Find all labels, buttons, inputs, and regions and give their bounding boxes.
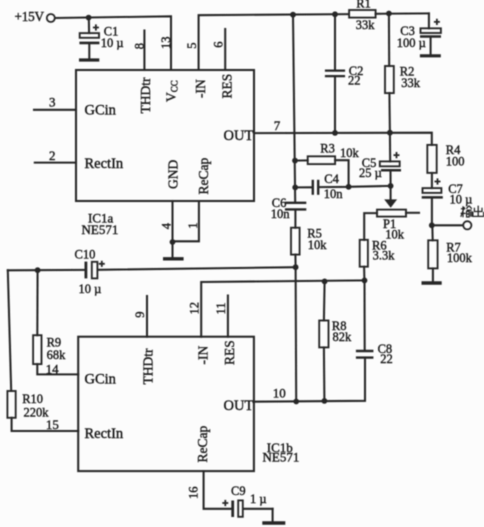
svg-text:-IN: -IN: [196, 346, 211, 365]
terminal output: [463, 221, 471, 229]
wire ReCap pin 1 stub: [173, 201, 199, 241]
capacitor C5: [359, 133, 401, 186]
node C2 top junction: [332, 11, 338, 17]
node R5 bottom junction: [293, 264, 299, 270]
op-amp U2 box IC1b: [78, 337, 254, 471]
ground: [420, 54, 441, 57]
svg-text:C9: C9: [231, 484, 246, 498]
wire RES pin 6 stub: [224, 29, 226, 70]
node R9 top junction: [35, 267, 41, 273]
svg-text:R10: R10: [22, 392, 43, 406]
svg-text:13: 13: [159, 37, 173, 50]
capacitor C10: [8, 248, 296, 296]
wire left branch to R10: [8, 270, 11, 391]
svg-text:82k: 82k: [333, 330, 353, 344]
resistor R6: [360, 238, 396, 280]
svg-text:68k: 68k: [47, 348, 67, 362]
capacitor C4: [295, 172, 348, 201]
label 输出 output: [461, 206, 484, 218]
svg-text:C4: C4: [324, 172, 339, 186]
ground: [262, 521, 285, 525]
wire to ground: [171, 242, 173, 257]
resistor R5: [291, 226, 327, 267]
node C5 bottom junction: [388, 183, 394, 189]
wire THDtr pin 8 stub: [143, 31, 145, 71]
svg-text:25 µ: 25 µ: [359, 166, 382, 180]
svg-text:RES: RES: [220, 74, 235, 99]
svg-text:RES: RES: [222, 340, 237, 365]
svg-text:10k: 10k: [340, 146, 360, 160]
resistor R7: [428, 225, 472, 281]
svg-text:7: 7: [274, 118, 281, 133]
wire RectIn pin 2: [35, 162, 76, 164]
ground: [422, 281, 442, 284]
svg-text:16: 16: [186, 487, 200, 500]
svg-text:THDtr: THDtr: [138, 77, 153, 113]
svg-text:22: 22: [348, 73, 361, 87]
svg-text:100 µ: 100 µ: [397, 36, 426, 50]
capacitor C7: [422, 173, 473, 225]
svg-text:1 µ: 1 µ: [250, 492, 267, 506]
svg-text:1: 1: [186, 222, 200, 228]
node R6 bottom junction: [362, 278, 368, 284]
svg-text:11: 11: [214, 302, 228, 314]
node top wire junction: [290, 12, 296, 18]
node junction R5 branch on OUT: [293, 399, 299, 405]
resistor R3: [295, 141, 360, 187]
wire -IN pin 5 top net: [199, 14, 349, 70]
node R3 left junction: [292, 158, 298, 164]
svg-text:100k: 100k: [447, 251, 473, 265]
potentiometer P1: [364, 210, 419, 242]
svg-text:22: 22: [380, 352, 393, 366]
svg-text:14: 14: [46, 362, 60, 377]
capacitor C8: [356, 280, 393, 365]
resistor R10: [7, 391, 78, 431]
svg-text:5: 5: [185, 42, 199, 48]
wire C9 to ground: [272, 509, 274, 521]
svg-text:10: 10: [273, 386, 286, 401]
svg-text:OUT: OUT: [224, 128, 254, 144]
wire R5 node down to OUT pin 10: [295, 267, 298, 401]
svg-text:-IN: -IN: [193, 79, 208, 98]
wire GCin pin 3: [34, 109, 76, 111]
svg-text:+15V: +15V: [15, 9, 45, 24]
svg-text:C10: C10: [75, 248, 96, 262]
ground: [79, 58, 99, 61]
wire R1 right: [376, 12, 429, 14]
svg-text:10k: 10k: [385, 227, 405, 241]
wire -IN vertical branch: [293, 15, 295, 203]
svg-text:GCin: GCin: [85, 371, 117, 387]
svg-text:RectIn: RectIn: [85, 156, 124, 172]
svg-text:10 µ: 10 µ: [79, 282, 102, 296]
wire OUT pin 10: [254, 358, 365, 402]
wire -IN pin 12: [201, 280, 364, 336]
svg-text:2: 2: [49, 148, 56, 163]
svg-text:33k: 33k: [401, 76, 421, 90]
svg-text:GCin: GCin: [85, 103, 117, 119]
svg-text:RectIn: RectIn: [85, 426, 124, 442]
svg-text:8: 8: [133, 43, 147, 49]
capacitor C1: [79, 18, 123, 59]
svg-text:15: 15: [46, 417, 59, 432]
node R8 top junction: [322, 279, 328, 285]
svg-text:R1: R1: [356, 0, 371, 11]
node C4 left junction: [292, 185, 298, 191]
svg-text:ReCap: ReCap: [196, 158, 211, 195]
wire C4 right to C5 bottom: [349, 185, 391, 188]
svg-text:3: 3: [49, 95, 56, 110]
wire RES pin 11 stub: [227, 296, 229, 337]
node R2 top junction: [386, 11, 392, 17]
svg-text:6: 6: [212, 41, 226, 47]
svg-text:10 µ: 10 µ: [450, 193, 473, 207]
potentiometer P1 wiper arrow: [384, 186, 397, 208]
capacitor C9: [222, 484, 272, 517]
node output junction: [429, 222, 435, 228]
resistor R1: [349, 0, 376, 32]
wire +15V to Vcc pin 13: [55, 16, 171, 70]
resistor R8: [319, 281, 352, 401]
svg-text:3.3k: 3.3k: [373, 249, 396, 263]
node junction R8 bottom on OUT: [322, 398, 328, 404]
resistor R2: [385, 14, 421, 133]
svg-text:OUT: OUT: [224, 398, 254, 414]
wire GND pin 4 stub: [171, 201, 173, 242]
svg-text:GND: GND: [166, 160, 181, 189]
svg-text:10 µ: 10 µ: [101, 36, 124, 50]
svg-text:4: 4: [160, 222, 174, 229]
wire to output terminal: [432, 224, 463, 226]
ground: [163, 257, 184, 260]
svg-text:100: 100: [446, 154, 465, 168]
resistor R4: [427, 143, 464, 173]
svg-text:NE571: NE571: [263, 450, 300, 465]
capacitor C2: [325, 14, 363, 133]
svg-text:10n: 10n: [324, 187, 344, 201]
svg-text:10n: 10n: [271, 207, 291, 221]
svg-text:ReCap: ReCap: [195, 426, 210, 463]
node C1 junction: [86, 15, 92, 21]
node C2 bottom junction: [332, 130, 338, 136]
svg-text:9: 9: [133, 311, 147, 317]
svg-text:33k: 33k: [356, 18, 376, 32]
svg-text:NE571: NE571: [82, 222, 119, 237]
node GND junction: [170, 239, 176, 245]
node R2 bottom junction: [387, 130, 393, 136]
capacitor C6: [271, 196, 307, 228]
svg-text:THDtr: THDtr: [141, 348, 156, 384]
capacitor C3: [397, 13, 441, 54]
node C4 right junction: [346, 184, 352, 190]
wire OUT pin 7: [254, 133, 432, 145]
svg-text:10k: 10k: [308, 238, 328, 252]
wire ReCap pin 16 stub: [204, 471, 231, 509]
svg-text:R3: R3: [320, 141, 335, 155]
terminal +15V: [15, 9, 55, 24]
wire THDtr pin 9 stub: [146, 296, 148, 337]
svg-text:12: 12: [187, 302, 201, 315]
resistor R9: [33, 270, 78, 374]
op-amp U1 box IC1a: [76, 70, 254, 201]
